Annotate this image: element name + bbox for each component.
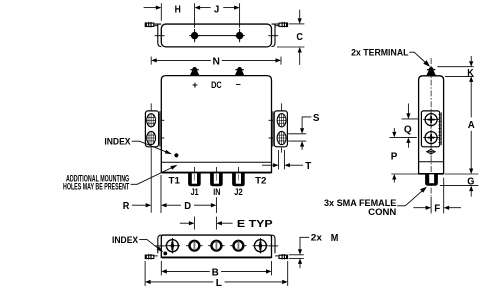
svg-text:+: + bbox=[192, 80, 198, 90]
dimension L bbox=[145, 261, 288, 289]
additional mounting holes note bbox=[63, 165, 178, 192]
dimension D bbox=[161, 175, 216, 213]
front view left flange slot hole lower bbox=[147, 131, 156, 144]
svg-text:L: L bbox=[216, 277, 223, 289]
bottom view left SMA stub bbox=[145, 254, 154, 259]
bottom view right flange strip bbox=[272, 235, 280, 256]
dimension F bbox=[413, 178, 461, 215]
svg-text:CONN: CONN bbox=[368, 207, 396, 217]
bottom view body bbox=[161, 235, 271, 257]
top view right SMA stub bbox=[279, 22, 288, 27]
svg-text:DC: DC bbox=[211, 80, 222, 90]
side view screw lower bbox=[423, 130, 439, 146]
index leader bottom view bbox=[112, 235, 167, 255]
dimension N bbox=[151, 55, 281, 67]
bottom view left flange hole crosshair bbox=[155, 245, 165, 247]
bottom view connector hole IN bbox=[208, 241, 224, 251]
svg-text:IN: IN bbox=[213, 187, 220, 197]
svg-text:E TYP: E TYP bbox=[237, 218, 273, 230]
svg-text:A: A bbox=[468, 119, 475, 131]
bottom view connector hole J2 bbox=[230, 241, 246, 251]
bottom view left flange strip bbox=[154, 235, 162, 256]
svg-text:T1: T1 bbox=[169, 176, 180, 186]
side view index mark bbox=[426, 149, 436, 154]
dimension G bbox=[440, 174, 479, 197]
svg-text:G: G bbox=[467, 176, 474, 188]
top view terminal dot 1 bbox=[189, 29, 199, 42]
svg-text:S: S bbox=[313, 112, 319, 124]
dimension P bbox=[391, 128, 419, 183]
svg-text:2x TERMINAL: 2x TERMINAL bbox=[351, 48, 409, 58]
front view connector J2 bbox=[232, 167, 245, 186]
terminal leader note bbox=[351, 48, 430, 67]
dimension R bbox=[123, 200, 152, 212]
top view body bbox=[161, 24, 271, 47]
side view DC terminal bbox=[426, 67, 436, 76]
front view body bbox=[161, 76, 271, 173]
front view bottom plate line bbox=[161, 161, 271, 163]
svg-text:C: C bbox=[296, 31, 303, 43]
bottom view right flange hole crosshair bbox=[268, 245, 278, 247]
sma leader note bbox=[324, 187, 427, 217]
side view centerline bbox=[430, 58, 432, 197]
svg-text:J: J bbox=[214, 4, 220, 16]
side view screw upper bbox=[423, 112, 439, 128]
front view polarity text bbox=[192, 79, 241, 90]
front view connector IN bbox=[210, 167, 223, 186]
dimension 2x M bbox=[289, 232, 339, 268]
dimension Q bbox=[390, 104, 419, 148]
top view right flange hole crosshair bbox=[268, 35, 278, 37]
side view body bbox=[419, 76, 444, 174]
svg-text:INDEX: INDEX bbox=[104, 136, 130, 146]
top view left flange strip bbox=[154, 24, 162, 47]
svg-text:J2: J2 bbox=[234, 187, 242, 197]
top view left flange hole crosshair bbox=[155, 35, 165, 37]
svg-text:D: D bbox=[184, 200, 191, 212]
front view right flange slot hole upper bbox=[277, 114, 286, 127]
svg-text:F: F bbox=[434, 203, 441, 215]
front view DC terminal + bbox=[190, 67, 200, 76]
svg-text:R: R bbox=[123, 200, 130, 212]
dimension H bbox=[144, 3, 181, 21]
svg-text:T2: T2 bbox=[255, 176, 266, 186]
top view left SMA stub bbox=[145, 22, 154, 27]
svg-text:HOLES MAY BE PRESENT: HOLES MAY BE PRESENT bbox=[63, 181, 129, 191]
front view port labels bbox=[169, 176, 267, 197]
dimension S bbox=[288, 112, 319, 150]
svg-text:N: N bbox=[213, 55, 220, 67]
svg-text:Q: Q bbox=[404, 124, 412, 136]
top view terminal dot 2 bbox=[234, 29, 244, 42]
dimension T bbox=[262, 150, 312, 172]
side view flange plate bbox=[421, 111, 441, 147]
bottom view terminal hole T1 bbox=[165, 238, 181, 254]
front view left flange slot hole upper bbox=[147, 114, 156, 127]
bottom view terminal hole T2 bbox=[253, 238, 269, 254]
front view connector J1 bbox=[188, 167, 201, 186]
dimension A bbox=[468, 76, 475, 174]
side view SMA connector bbox=[425, 174, 438, 185]
svg-text:P: P bbox=[391, 151, 398, 163]
svg-text:J1: J1 bbox=[191, 187, 199, 197]
dimension E TYP bbox=[180, 217, 273, 231]
svg-text:H: H bbox=[175, 4, 181, 16]
svg-text:T: T bbox=[305, 160, 312, 172]
svg-text:M: M bbox=[331, 232, 339, 244]
index leader front view bbox=[104, 136, 178, 157]
front view DC terminal - bbox=[235, 67, 245, 76]
svg-text:K: K bbox=[467, 67, 474, 79]
front view right flange slot hole lower bbox=[277, 131, 286, 144]
bottom view right SMA stub bbox=[279, 254, 288, 259]
dimension C bbox=[277, 10, 304, 65]
top view line between terminals bbox=[198, 35, 236, 37]
svg-text:2x: 2x bbox=[311, 233, 322, 243]
bottom view connector hole J1 bbox=[186, 241, 202, 251]
top view right flange strip bbox=[272, 24, 280, 47]
svg-text:–: – bbox=[236, 79, 241, 89]
dimension K bbox=[437, 56, 474, 79]
dimension J bbox=[195, 3, 240, 28]
dimension B bbox=[161, 261, 271, 278]
front view right flange bbox=[269, 103, 288, 152]
front view left flange bbox=[145, 103, 164, 212]
svg-text:INDEX: INDEX bbox=[112, 235, 138, 245]
